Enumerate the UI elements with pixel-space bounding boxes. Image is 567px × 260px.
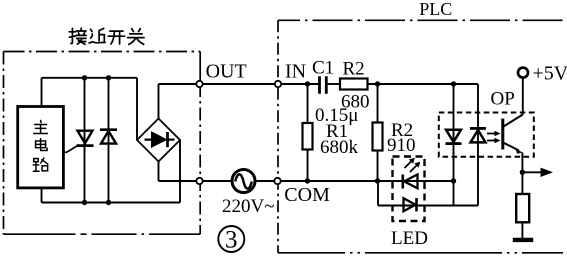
svg-text:OP: OP bbox=[491, 89, 515, 110]
svg-text:3: 3 bbox=[225, 227, 238, 254]
svg-text:R2: R2 bbox=[343, 59, 365, 80]
svg-text:LED: LED bbox=[391, 228, 428, 249]
svg-text:IN: IN bbox=[285, 61, 306, 83]
svg-text:680k: 680k bbox=[320, 137, 359, 158]
svg-text:COM: COM bbox=[284, 184, 330, 206]
svg-text:220V~: 220V~ bbox=[222, 196, 275, 217]
svg-text:OUT: OUT bbox=[206, 61, 247, 83]
svg-text:+5V: +5V bbox=[533, 63, 567, 85]
svg-text:C1: C1 bbox=[312, 58, 334, 79]
svg-text:910: 910 bbox=[387, 135, 416, 156]
svg-text:PLC: PLC bbox=[419, 0, 452, 19]
